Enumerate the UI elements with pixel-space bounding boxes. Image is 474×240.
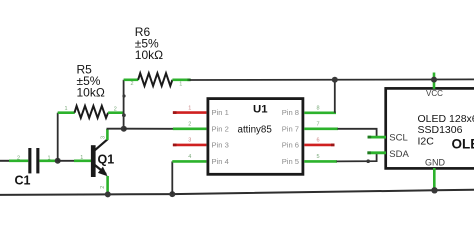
transistor Q1 emitter leg [106,176,109,194]
svg-text:10kΩ: 10kΩ [77,85,105,99]
transistor Q1 collector leg [106,129,109,140]
svg-text:Pin 3: Pin 3 [212,141,229,150]
svg-text:C1: C1 [15,174,31,188]
svg-text:OLED 128x64: OLED 128x64 [418,113,474,125]
wire node to U1 pin 2 [124,128,174,130]
capacitor C1 pin 1 leg [39,160,57,163]
bendpoint on vertical wire [122,94,125,97]
bendpoint on pin5 wire [366,159,370,163]
resistor R5 pin 1 leg [58,111,75,114]
svg-text:2: 2 [131,81,134,87]
svg-text:2: 2 [17,155,20,161]
wire R5 left elbow down to C1 node [57,113,59,161]
svg-text:Pin 8: Pin 8 [282,108,299,117]
U1 pin 3 leg (red, unconnected) [173,144,207,147]
svg-text:Pin 7: Pin 7 [282,124,299,133]
resistor R6 pin 2 leg [124,79,139,82]
svg-text:2: 2 [114,106,117,112]
svg-text:SSD1306: SSD1306 [418,124,463,136]
svg-text:Q1: Q1 [98,152,115,166]
capacitor C1 [28,148,39,173]
svg-text:Pin 6: Pin 6 [282,141,299,150]
OLED GND pin leg [433,168,436,190]
wire junction to Q1 base [58,160,75,162]
U1 pin 6 leg (red, unconnected) [304,144,334,147]
OLED SCL pin leg [368,136,386,139]
resistor R6 pin 1 leg [172,79,190,82]
svg-text:4: 4 [188,154,191,160]
U1 pin 1 leg (red, unconnected) [173,111,207,114]
node junction emitter/ground [105,191,111,197]
U1 pin 5 leg [304,160,337,163]
U1 pin 4 leg [172,160,206,163]
node junction R5/R6/collector/Pin2 [121,126,127,132]
bendpoint where R5 meets vertical [122,113,126,117]
svg-text:2: 2 [188,122,191,128]
svg-text:3: 3 [101,136,107,139]
svg-text:3: 3 [188,138,191,144]
wire U1 pin 8 up to VCC rail [334,80,336,113]
svg-text:SDA: SDA [389,149,409,160]
svg-text:VCC: VCC [426,89,443,98]
svg-text:10kΩ: 10kΩ [135,48,163,62]
OLED SDA pin leg [367,151,386,154]
svg-text:U1: U1 [253,104,268,116]
capacitor C1 pin 2 leg [9,160,28,163]
U1 pin 8 leg [304,112,336,115]
resistor R5 pin 2 leg [108,111,124,114]
OLED VCC pin leg [433,73,436,89]
wire U1 pin 4 down to ground [171,161,173,194]
svg-text:Pin 5: Pin 5 [282,157,299,166]
OLED module body [386,88,474,168]
svg-text:6: 6 [317,138,320,144]
svg-text:1: 1 [65,106,68,112]
IC U1 body [208,99,303,175]
node junction VCC rail/OLED VCC [431,77,437,83]
transistor Q1 [91,139,108,177]
svg-text:SCL: SCL [389,133,407,144]
U1 pin 2 leg [173,128,207,131]
wire collector to node [107,128,123,131]
ground rail wire [0,190,474,195]
node junction C1/R5/Q1 [55,158,61,164]
svg-text:attiny85: attiny85 [238,125,273,136]
svg-text:5: 5 [317,154,320,160]
svg-text:2: 2 [100,186,106,189]
svg-text:8: 8 [317,106,320,112]
U1 pin 7 leg [304,128,338,131]
wire U1 pin 7 to OLED SCL [338,129,377,137]
svg-text:Pin 1: Pin 1 [212,108,229,117]
svg-text:1: 1 [179,81,182,87]
node junction OLED GND/ground rail [431,187,437,193]
svg-text:Pin 4: Pin 4 [212,157,229,166]
top VCC rail wire [190,78,474,81]
svg-text:1: 1 [188,105,191,111]
resistor R6 [138,73,172,86]
svg-text:GND: GND [425,157,446,167]
svg-text:7: 7 [317,122,320,128]
svg-text:OLED: OLED [452,137,474,152]
svg-text:1: 1 [80,155,83,161]
wire U1 pin 5 to OLED SDA [337,153,377,162]
wire into C1 from left edge [0,160,10,162]
transistor Q1 base leg [74,160,91,163]
svg-text:Pin 2: Pin 2 [212,124,229,133]
resistor R5 [75,106,109,118]
node junction pin8/VCC rail [332,77,338,83]
svg-text:I2C: I2C [418,136,435,148]
node junction U1 pin4/ground [169,191,175,197]
svg-text:1: 1 [48,155,51,161]
wire R6 elbow down through R5 to node [123,80,125,129]
